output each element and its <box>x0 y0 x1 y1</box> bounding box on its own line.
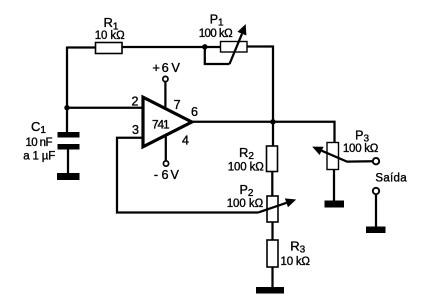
op-amp U1 741 triangle <box>143 97 192 147</box>
capacitor C1 <box>58 132 80 138</box>
wire top-left from R1 to left rail corner <box>67 46 96 48</box>
potentiometer P2 <box>267 196 278 222</box>
node junction dot P1 wiper tie <box>202 44 207 49</box>
P1 wiper arrowhead <box>238 24 247 36</box>
resistor R2 <box>267 146 278 172</box>
svg-text:100 kΩ: 100 kΩ <box>228 162 264 174</box>
pin 6 output wire to P3 <box>192 122 335 143</box>
svg-text:Saída: Saída <box>375 172 407 184</box>
svg-text:100 kΩ: 100 kΩ <box>343 143 379 155</box>
P2 wiper arrow shaft <box>258 203 287 213</box>
P3 wiper arrowhead <box>312 147 323 155</box>
wire between R1 and P1 <box>122 46 221 48</box>
wire C1 to ground <box>67 149 69 174</box>
svg-text:-6V: -6V <box>154 168 180 182</box>
wire terminal to ground <box>375 195 377 228</box>
wire P1 wiper loop <box>205 47 230 64</box>
resistor R3 <box>267 240 278 267</box>
wire P3 to ground <box>333 170 335 202</box>
svg-text:10 kΩ: 10 kΩ <box>281 256 311 268</box>
node junction dot at C1/pin2 <box>64 105 69 110</box>
-6V terminal circle <box>163 161 168 166</box>
svg-text:741: 741 <box>152 118 170 132</box>
svg-text:100 kΩ: 100 kΩ <box>199 28 233 40</box>
svg-text:a 1 µF: a 1 µF <box>23 151 55 163</box>
+6V terminal circle <box>163 76 168 81</box>
ground under output terminal <box>366 227 386 234</box>
wire R3 to ground <box>271 267 273 288</box>
P2 wiper arrowhead <box>285 198 296 207</box>
resistor R1 <box>96 43 123 54</box>
svg-text:10 kΩ: 10 kΩ <box>95 30 125 42</box>
svg-text:+6V: +6V <box>152 60 180 75</box>
potentiometer P3 <box>327 143 339 170</box>
svg-text:6: 6 <box>191 105 198 119</box>
pin 7 wire to +6V <box>164 82 166 109</box>
svg-text:100 kΩ: 100 kΩ <box>227 198 264 210</box>
wire R2 to P2 <box>271 172 273 197</box>
pin 3 wire loop down and right to P2 wiper <box>117 138 258 213</box>
ground under R3 <box>256 287 284 294</box>
node junction dot output/R2 <box>270 119 275 124</box>
pin 4 wire to -6V <box>165 136 167 161</box>
svg-text:4: 4 <box>182 134 189 148</box>
wire right rail down to R2 <box>272 46 274 147</box>
ground under P3 <box>325 201 345 208</box>
P1 wiper arrow shaft <box>230 34 243 64</box>
svg-text:2: 2 <box>132 95 139 109</box>
P3 wiper arrow shaft and wire to output terminal <box>322 151 373 162</box>
wire left rail vertical down to C1 <box>66 47 68 133</box>
potentiometer P1 <box>221 42 248 53</box>
svg-text:7: 7 <box>174 98 181 112</box>
wire pin2 horizontal <box>66 107 143 109</box>
svg-text:10 nF: 10 nF <box>26 137 53 149</box>
output terminal circle (wiper) <box>373 158 379 164</box>
svg-text:3: 3 <box>132 123 139 137</box>
output reference terminal circle <box>373 188 379 194</box>
ground under C1 <box>57 173 80 180</box>
wire P1 right to right rail <box>247 45 274 47</box>
wire P2 to R3 <box>271 222 273 241</box>
